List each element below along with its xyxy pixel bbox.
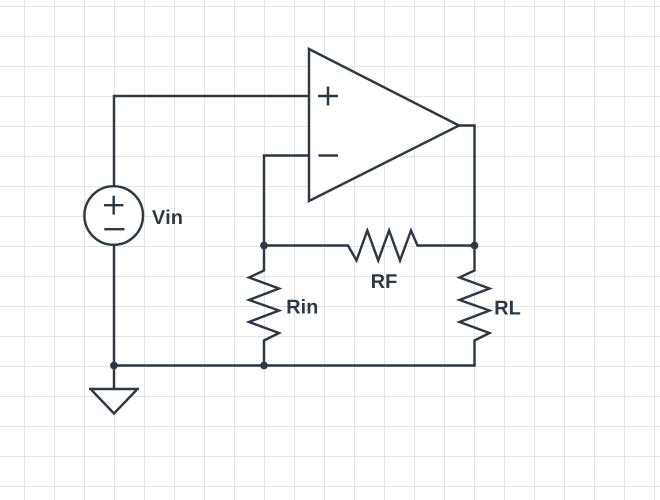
ground stem (113, 366, 115, 390)
op-amp minus input symbol (319, 154, 339, 156)
wire non-inverting input from Vin top to op-amp (114, 96, 308, 187)
node feedback-left junction dot (260, 242, 268, 250)
resistor RF (264, 231, 475, 261)
node feedback-right junction dot (471, 242, 479, 250)
ground triangle (92, 390, 137, 414)
wire op-amp output down to feedback node (459, 126, 475, 246)
node bottom-middle junction dot (260, 362, 268, 370)
voltage source minus symbol (104, 228, 124, 230)
resistor RL (460, 246, 490, 366)
resistor Rin (249, 246, 279, 366)
voltage source Vin circle (84, 186, 143, 245)
ground bar (89, 388, 139, 390)
wire inverting input to feedback node (264, 156, 308, 246)
op-amp U1 triangle (309, 49, 459, 201)
label Vin (152, 210, 182, 225)
node ground junction dot (110, 362, 118, 370)
label Rin (288, 299, 318, 314)
voltage source plus symbol (104, 196, 124, 215)
ground fill (92, 390, 137, 414)
label RL (496, 301, 521, 315)
wire bottom rail (114, 364, 476, 366)
wire Vin bottom to ground node (113, 245, 115, 366)
label RF (372, 274, 397, 288)
op-amp plus input symbol (318, 87, 338, 106)
